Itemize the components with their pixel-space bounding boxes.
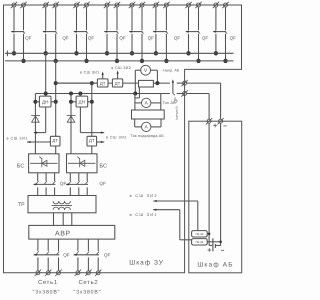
svg-text:в СШ ЗИ2: в СШ ЗИ2 (111, 66, 131, 70)
svg-text:QF: QF (173, 97, 178, 103)
svg-text:QF: QF (60, 181, 67, 186)
svg-text:"3x380В": "3x380В" (74, 289, 102, 295)
svg-text:ДН: ДН (42, 100, 48, 105)
svg-text:в СШ ЗИ2: в СШ ЗИ2 (129, 193, 157, 198)
svg-text:(зарядный): (зарядный) (176, 106, 179, 120)
svg-text:Шкаф ЗУ: Шкаф ЗУ (129, 260, 164, 267)
svg-text:БС: БС (17, 163, 25, 169)
svg-text:ПВ-4Б: ПВ-4Б (195, 233, 203, 236)
svg-text:Напр. АБ: Напр. АБ (163, 69, 180, 73)
svg-text:QF: QF (230, 35, 237, 40)
svg-text:ДН: ДН (78, 100, 84, 105)
svg-text:ДТ: ДТ (100, 81, 106, 86)
svg-text:Ток подзаряда АБ: Ток подзаряда АБ (131, 134, 165, 138)
svg-text:в СШ ЗИ1: в СШ ЗИ1 (80, 70, 100, 74)
svg-text:Сеть2: Сеть2 (78, 279, 98, 286)
svg-text:в СШ ЗИ2: в СШ ЗИ2 (106, 136, 127, 140)
svg-text:"3x380В": "3x380В" (33, 289, 61, 295)
svg-text:QF: QF (25, 35, 32, 40)
svg-text:ДТ: ДТ (115, 81, 121, 86)
svg-text:QF: QF (88, 35, 95, 40)
svg-text:QF: QF (99, 181, 106, 186)
svg-text:ДТ: ДТ (52, 138, 58, 143)
svg-text:QF: QF (104, 253, 111, 258)
svg-text:в СШ ЗИ1: в СШ ЗИ1 (6, 136, 27, 140)
svg-text:БС: БС (99, 164, 107, 170)
svg-text:ПВ-4Б: ПВ-4Б (195, 241, 203, 244)
svg-text:QF: QF (174, 35, 181, 40)
svg-text:в СШ ЗИ1: в СШ ЗИ1 (129, 212, 157, 217)
svg-text:Шкаф АБ: Шкаф АБ (197, 261, 233, 268)
svg-text:QF: QF (119, 35, 126, 40)
svg-text:ТР: ТР (18, 202, 25, 208)
svg-text:QF: QF (62, 35, 69, 40)
svg-text:QF: QF (202, 35, 209, 40)
svg-text:Сеть1: Сеть1 (38, 279, 58, 286)
svg-text:QF: QF (63, 253, 70, 258)
svg-text:QF: QF (148, 35, 155, 40)
svg-text:ДТ: ДТ (89, 138, 95, 143)
svg-text:АВР: АВР (55, 230, 71, 237)
